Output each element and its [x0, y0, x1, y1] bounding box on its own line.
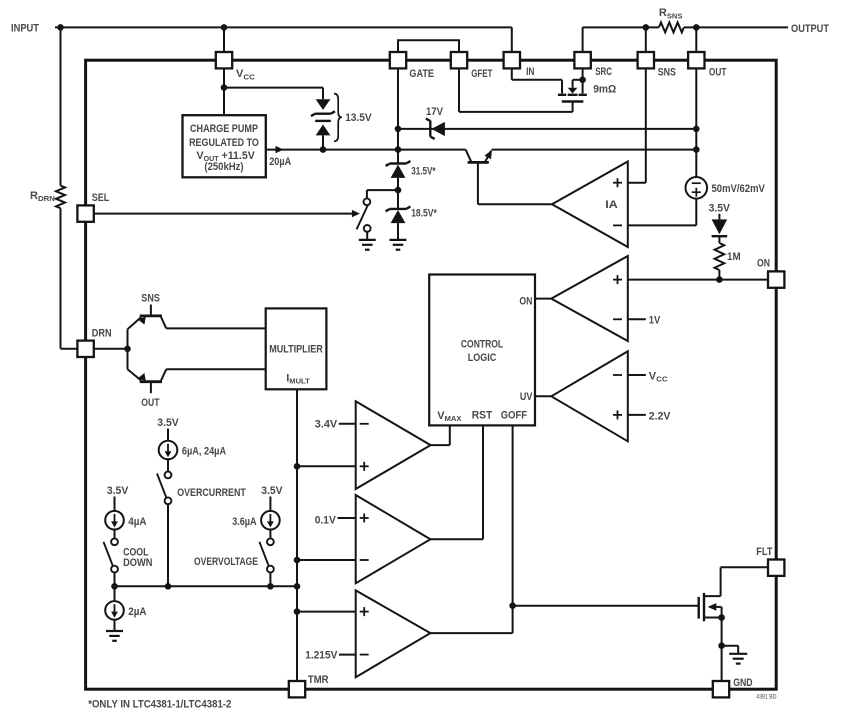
- svg-text:GFET: GFET: [471, 68, 492, 80]
- svg-text:DOWN: DOWN: [123, 557, 152, 569]
- svg-text:OUTPUT: OUTPUT: [791, 23, 829, 35]
- svg-text:LOGIC: LOGIC: [468, 352, 497, 364]
- svg-text:ON: ON: [757, 257, 770, 269]
- svg-text:20µA: 20µA: [269, 156, 291, 168]
- svg-text:OUT: OUT: [709, 66, 727, 78]
- svg-text:9mΩ: 9mΩ: [593, 84, 616, 96]
- svg-text:3.6µA: 3.6µA: [232, 516, 256, 528]
- svg-text:SEL: SEL: [92, 192, 110, 204]
- svg-text:(250kHz): (250kHz): [204, 161, 243, 173]
- svg-text:OVERVOLTAGE: OVERVOLTAGE: [194, 556, 258, 568]
- svg-text:UV: UV: [520, 391, 533, 403]
- svg-text:TMR: TMR: [308, 674, 329, 686]
- svg-text:MULTIPLIER: MULTIPLIER: [269, 344, 323, 356]
- svg-text:IA: IA: [605, 199, 618, 211]
- svg-text:INPUT: INPUT: [11, 23, 39, 35]
- svg-text:SNS: SNS: [141, 293, 160, 305]
- svg-text:FLT: FLT: [756, 546, 772, 558]
- svg-text:CHARGE PUMP: CHARGE PUMP: [190, 123, 258, 135]
- svg-text:3.4V: 3.4V: [315, 419, 338, 431]
- svg-text:2µA: 2µA: [128, 606, 146, 618]
- svg-text:CONTROL: CONTROL: [461, 339, 504, 351]
- svg-text:3.5V: 3.5V: [709, 202, 731, 214]
- svg-text:IN: IN: [526, 66, 534, 78]
- svg-text:1M: 1M: [727, 251, 741, 263]
- svg-text:0.1V: 0.1V: [315, 515, 337, 527]
- svg-text:ON: ON: [519, 295, 532, 307]
- svg-text:6µA, 24µA: 6µA, 24µA: [182, 446, 226, 458]
- svg-text:1.215V: 1.215V: [305, 650, 338, 662]
- svg-text:3.5V: 3.5V: [261, 485, 283, 497]
- svg-text:3.5V: 3.5V: [107, 485, 129, 497]
- svg-text:GOFF: GOFF: [501, 410, 527, 422]
- svg-text:18.5V*: 18.5V*: [411, 207, 437, 219]
- svg-text:SRC: SRC: [595, 66, 612, 78]
- svg-text:GND: GND: [733, 677, 752, 689]
- svg-text:1V: 1V: [649, 314, 661, 326]
- svg-text:DRN: DRN: [92, 328, 112, 340]
- svg-text:4µA: 4µA: [128, 516, 146, 528]
- svg-text:RST: RST: [472, 410, 493, 422]
- svg-text:4381 BD: 4381 BD: [756, 694, 777, 701]
- svg-text:OUT: OUT: [141, 397, 159, 409]
- svg-text:*ONLY IN LTC4381-1/LTC4381-2: *ONLY IN LTC4381-1/LTC4381-2: [88, 699, 231, 711]
- svg-text:13.5V: 13.5V: [345, 112, 372, 124]
- svg-text:50mV/62mV: 50mV/62mV: [712, 183, 766, 195]
- svg-text:31.5V*: 31.5V*: [411, 166, 436, 178]
- svg-text:17V: 17V: [426, 106, 444, 118]
- svg-text:2.2V: 2.2V: [649, 410, 671, 422]
- svg-text:REGULATED TO: REGULATED TO: [189, 137, 259, 149]
- svg-text:SNS: SNS: [658, 66, 676, 78]
- svg-text:OVERCURRENT: OVERCURRENT: [177, 487, 246, 499]
- svg-text:3.5V: 3.5V: [157, 417, 179, 429]
- svg-text:GATE: GATE: [409, 68, 434, 80]
